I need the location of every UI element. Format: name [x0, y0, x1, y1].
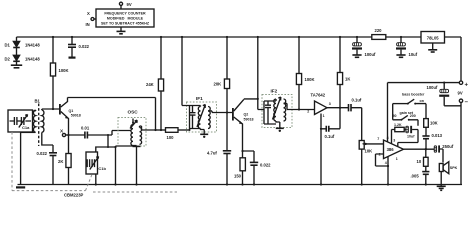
capacitor 0.022 emitter bypass	[243, 151, 255, 162]
svg-text:10K: 10K	[430, 121, 438, 126]
svg-text:100K: 100K	[59, 68, 69, 73]
wire rail feed to IF2	[258, 37, 264, 110]
svg-text:9V: 9V	[127, 2, 132, 7]
wire B1 secondary bottom	[42, 132, 53, 152]
potentiometer 10K volume	[359, 141, 364, 150]
svg-text:59018: 59018	[71, 114, 81, 118]
svg-text:.005: .005	[411, 173, 420, 178]
wire C1a to B1 primary	[33, 110, 36, 111]
wire OSC left winding to ground rail	[116, 146, 134, 185]
dashed gang link CBM223P	[11, 132, 13, 191]
svg-text:220: 220	[375, 28, 383, 33]
wire inverting input loop	[376, 154, 389, 166]
svg-text:Q2: Q2	[244, 113, 249, 117]
capacitor 250uf output	[434, 146, 436, 152]
svg-text:4: 4	[385, 161, 387, 165]
speaker SPK	[439, 164, 443, 172]
capacitor 0.022 base bypass	[49, 152, 57, 154]
svg-text:MODIFIED MODULE: MODIFIED MODULE	[107, 17, 144, 21]
svg-text:SET TO SUBTRACT 455KHZ: SET TO SUBTRACT 455KHZ	[101, 22, 150, 26]
svg-text:0.01: 0.01	[81, 126, 90, 131]
svg-text:IF1: IF1	[196, 96, 203, 101]
svg-text:X: X	[87, 11, 90, 16]
wire bottom ground rail	[18, 184, 463, 186]
op-amp U2 386	[384, 140, 404, 159]
svg-text:OSC: OSC	[128, 110, 139, 115]
svg-text:3: 3	[393, 139, 395, 143]
diode D1 1N4148	[16, 37, 18, 41]
capacitor inside IF2	[267, 101, 269, 124]
wire B1 secondary top to Q1 base	[42, 108, 59, 110]
resistor 150 emitter	[242, 151, 244, 158]
svg-text:2: 2	[307, 110, 309, 114]
svg-text:3: 3	[329, 102, 331, 106]
wire IF2 secondary to TA7642 input	[284, 103, 315, 109]
resistor 24K	[160, 37, 162, 79]
transistor Q2 59018	[232, 108, 234, 121]
svg-text:bass booster: bass booster	[402, 92, 425, 96]
svg-text:2K: 2K	[58, 159, 63, 164]
capacitor C1b gang section box	[86, 152, 98, 174]
svg-text:0.1uf: 0.1uf	[352, 98, 362, 103]
resistor 1K	[339, 37, 341, 73]
svg-text:on: on	[420, 99, 424, 103]
capacitor C1a gang section box	[8, 110, 33, 132]
wire top supply rail	[17, 36, 462, 38]
capacitor .005 zobel	[425, 166, 427, 171]
IF1 module box	[187, 102, 217, 132]
svg-text:20K: 20K	[214, 82, 222, 87]
svg-text:100uf: 100uf	[427, 85, 439, 90]
IF2 module box	[262, 95, 292, 128]
svg-text:D1: D1	[5, 43, 11, 48]
svg-text:1N4148: 1N4148	[25, 43, 40, 48]
wire output node 386	[404, 148, 435, 150]
svg-text:100: 100	[167, 135, 175, 140]
capacitor 100uf rail filter	[356, 37, 358, 43]
wire Q1 collector to oscillator node	[68, 98, 156, 131]
resistor 20K	[226, 37, 228, 79]
wire supply 9V to pin6	[388, 83, 460, 142]
svg-text:386: 386	[387, 147, 395, 152]
capacitor 0.013 bass	[422, 135, 429, 137]
svg-text:7: 7	[377, 137, 379, 141]
node rail junction dots	[52, 36, 54, 38]
svg-text:0.022: 0.022	[79, 44, 90, 49]
capacitor 0.01 coupling	[69, 134, 85, 136]
diode D2 1N4148	[16, 48, 18, 55]
svg-text:+: +	[465, 83, 469, 89]
ground under counter box	[120, 27, 122, 31]
capacitor 10uf rail filter	[400, 37, 402, 43]
svg-text:1.2K: 1.2K	[394, 123, 402, 127]
resistor 100K bias	[52, 37, 54, 63]
svg-text:10uf: 10uf	[409, 52, 418, 57]
wire tuned circuit to ground rail	[20, 132, 22, 185]
ground under speaker	[440, 172, 442, 187]
svg-text:SPK: SPK	[450, 166, 458, 170]
resistor 2K emitter	[66, 154, 71, 168]
svg-text:1N4148: 1N4148	[25, 56, 40, 61]
svg-text:TA7642: TA7642	[311, 92, 326, 97]
svg-text:D2: D2	[5, 56, 11, 61]
svg-text:1K: 1K	[345, 77, 350, 82]
svg-text:4.7uf: 4.7uf	[207, 151, 217, 156]
ground stem OSC secondary	[133, 145, 137, 148]
regulator 78L05	[421, 32, 445, 44]
ground bar on rail left end	[16, 186, 25, 188]
svg-text:10uf: 10uf	[407, 134, 415, 138]
svg-text:IN: IN	[86, 22, 90, 27]
resistor 100	[156, 129, 166, 131]
svg-text:100K: 100K	[305, 77, 315, 82]
node 9V terminal of counter	[119, 2, 122, 5]
svg-text:FREQUENCY COUNTER: FREQUENCY COUNTER	[104, 12, 146, 16]
capacitor 100uf battery filter	[443, 83, 445, 89]
svg-text:B1: B1	[35, 99, 41, 104]
svg-text:24K: 24K	[146, 82, 154, 87]
capacitor 0.1uf coupling	[349, 104, 352, 111]
wire pin4 to ground rail	[387, 157, 389, 185]
svg-text:C1a: C1a	[22, 125, 30, 130]
svg-text:CBM223P: CBM223P	[64, 193, 84, 198]
svg-text:59018: 59018	[244, 118, 254, 122]
resistor 100K agc	[298, 37, 300, 74]
wire C1b top	[96, 147, 116, 152]
svg-text:0.022: 0.022	[37, 151, 48, 156]
svg-text:10: 10	[417, 159, 422, 164]
wire IF1 secondary to Q2 base	[208, 111, 232, 113]
svg-text:100uf: 100uf	[365, 52, 377, 57]
svg-text:0.022: 0.022	[260, 162, 271, 167]
wire rail feed to IF1	[182, 37, 190, 106]
svg-text:IF2: IF2	[271, 89, 278, 94]
svg-text:250uf: 250uf	[442, 144, 454, 149]
transformer OSC coil	[131, 125, 133, 146]
ground IF2	[276, 121, 280, 128]
svg-text:9V: 9V	[458, 90, 463, 95]
svg-text:1: 1	[323, 114, 325, 118]
capacitor 0.1uf bias	[329, 108, 340, 129]
capacitor 4.7uf	[223, 150, 231, 152]
capacitor inside IF1	[192, 106, 194, 129]
capacitor 0.022 top	[71, 37, 73, 44]
resistor 1.2K gain	[392, 130, 395, 144]
svg-text:150: 150	[234, 174, 242, 179]
transistor Q1 59018	[59, 104, 61, 115]
svg-text:200: 200	[410, 114, 416, 118]
svg-text:78L05: 78L05	[427, 36, 440, 41]
resistor 10 zobel	[425, 149, 427, 157]
svg-text:C1b: C1b	[98, 166, 106, 171]
svg-text:Q1: Q1	[69, 109, 74, 113]
transformer IF1 coil	[198, 107, 200, 129]
frequency counter module box	[96, 9, 154, 27]
transformer IF2 coil	[274, 99, 276, 121]
ground under D2	[16, 62, 18, 65]
wire C1b bottom to ground rail	[95, 174, 97, 185]
resistor 10K bass	[424, 119, 429, 128]
capacitor 10uf gain	[404, 129, 406, 131]
wire TA7642 output node	[327, 107, 348, 109]
svg-text:1: 1	[396, 157, 398, 161]
wire OSC output	[140, 126, 156, 130]
battery 9V terminals	[460, 37, 462, 81]
svg-text:0.1uf: 0.1uf	[325, 134, 335, 139]
resistor 220 series	[372, 35, 386, 40]
svg-text:10K: 10K	[365, 149, 373, 154]
oscillator OSC module box	[118, 118, 146, 147]
svg-text:0.013: 0.013	[432, 133, 443, 138]
ground IF1	[201, 129, 205, 135]
